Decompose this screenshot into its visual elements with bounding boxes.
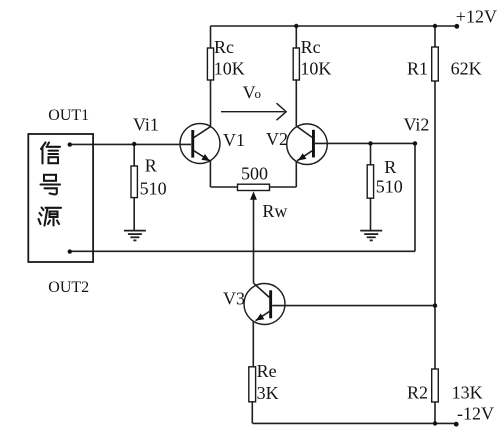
svg-text:+12V: +12V	[456, 7, 497, 27]
svg-text:10K: 10K	[300, 59, 331, 79]
svg-text:o: o	[255, 86, 262, 101]
svg-text:R1: R1	[407, 58, 428, 78]
svg-text:3K: 3K	[257, 383, 279, 403]
svg-text:13K: 13K	[452, 383, 483, 403]
svg-text:V3: V3	[223, 289, 245, 309]
svg-text:V2: V2	[266, 129, 288, 149]
svg-text:500: 500	[241, 164, 268, 184]
svg-text:-12V: -12V	[457, 403, 494, 423]
svg-text:62K: 62K	[451, 58, 482, 78]
svg-text:OUT1: OUT1	[48, 107, 89, 124]
svg-text:Rc: Rc	[214, 37, 234, 57]
svg-text:R2: R2	[407, 383, 428, 403]
svg-text:10K: 10K	[214, 59, 245, 79]
svg-text:Re: Re	[257, 361, 277, 381]
svg-text:Rw: Rw	[262, 201, 287, 221]
svg-text:R: R	[384, 157, 396, 177]
svg-text:Vi1: Vi1	[133, 114, 159, 134]
svg-text:510: 510	[376, 176, 403, 196]
svg-text:Vi2: Vi2	[404, 114, 430, 134]
svg-text:OUT2: OUT2	[48, 279, 89, 296]
svg-text:Rc: Rc	[301, 37, 321, 57]
svg-text:R: R	[145, 156, 157, 176]
svg-text:510: 510	[140, 179, 167, 199]
svg-text:V1: V1	[223, 130, 245, 150]
